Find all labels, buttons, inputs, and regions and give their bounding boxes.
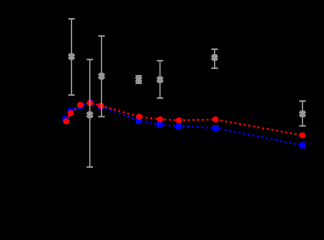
gray x markers [69,54,305,117]
red circle markers [63,100,306,139]
bar E x=160 [159,61,161,98]
bar F x=214.6 [214,49,216,68]
gray error bars [68,19,305,167]
bar G x=302.5 [302,101,304,126]
bar D x=138.7 [138,76,140,84]
bar A x=71.5 [71,19,73,95]
bar B x=89.8 [89,60,91,168]
red series dotted line [66,103,302,135]
blue square markers [63,100,306,149]
bar C x=101.5 [101,36,103,117]
blue series dotted line [66,103,303,146]
